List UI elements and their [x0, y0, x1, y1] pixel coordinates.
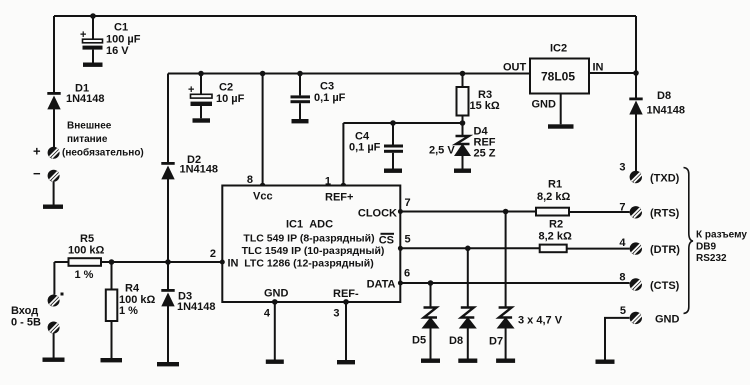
resistor R2 [539, 219, 572, 253]
svg-text:1N4148: 1N4148 [647, 105, 686, 117]
terminal 5 GND [620, 305, 680, 326]
svg-text:(TXD): (TXD) [650, 173, 680, 185]
capacitor C1 [80, 13, 141, 62]
svg-text:+: + [80, 29, 86, 41]
diode D3 [161, 262, 215, 362]
svg-text:15 kΩ: 15 kΩ [470, 100, 500, 112]
terminal input 2 [48, 322, 60, 358]
wire R2 to DTR [567, 248, 630, 250]
svg-text:R5: R5 [80, 233, 94, 245]
capacitor C4 [349, 120, 403, 168]
svg-text:IC1 ADC: IC1 ADC [286, 219, 333, 231]
terminal input 1 [48, 293, 64, 307]
svg-text:CLOCK: CLOCK [358, 208, 397, 220]
diode D8 top [629, 73, 685, 171]
svg-text:0,1 µF: 0,1 µF [349, 142, 381, 154]
svg-text:TLC 549 IP (8-разрядный): TLC 549 IP (8-разрядный) [243, 233, 374, 245]
svg-text:(RTS): (RTS) [650, 208, 680, 220]
svg-text:R1: R1 [548, 179, 562, 191]
svg-text:R2: R2 [549, 219, 563, 231]
svg-text:REF-: REF- [333, 288, 359, 300]
svg-text:3: 3 [333, 308, 339, 320]
diode D2 [161, 154, 218, 262]
svg-text:C3: C3 [320, 81, 334, 93]
svg-text:C1: C1 [114, 22, 128, 34]
svg-text:3: 3 [619, 162, 625, 174]
svg-text:D8: D8 [449, 335, 463, 347]
svg-text:6: 6 [404, 268, 410, 280]
svg-text:D8: D8 [657, 90, 671, 102]
ground D5 [421, 359, 440, 363]
svg-text:+: + [188, 84, 194, 96]
wire C4 sub-rail [343, 122, 462, 124]
ground D4 [454, 169, 471, 173]
node Vcc stem [262, 74, 264, 186]
svg-text:8: 8 [619, 272, 625, 284]
svg-text:3 x 4,7 V: 3 x 4,7 V [518, 315, 563, 327]
wire REF+ drop [342, 123, 344, 186]
svg-text:OUT: OUT [503, 62, 527, 74]
svg-text:К разъему: К разъему [696, 230, 747, 241]
svg-text:16 V: 16 V [106, 45, 129, 57]
ground IC pin4 [266, 360, 284, 364]
capacitor C3 [291, 71, 346, 119]
svg-text:8,2 kΩ: 8,2 kΩ [539, 231, 572, 243]
svg-text:питание: питание [67, 134, 108, 145]
svg-text:D7: D7 [489, 336, 503, 348]
svg-text:R4: R4 [125, 283, 140, 295]
diode D1 [47, 83, 104, 148]
wire top rail [54, 15, 636, 17]
wire CS line [400, 247, 539, 249]
resistor R4 [106, 262, 156, 358]
ground C4 [384, 169, 402, 173]
svg-text:REF+: REF+ [325, 192, 353, 204]
svg-text:TLC 1549 IP (10-разрядный): TLC 1549 IP (10-разрядный) [242, 245, 385, 257]
svg-text:RS232: RS232 [696, 253, 727, 264]
wire D5 drop [430, 283, 432, 308]
svg-text:100 kΩ: 100 kΩ [68, 245, 105, 257]
wire D6 drop [467, 248, 469, 307]
capacitor C2 [188, 71, 245, 119]
svg-text:IN: IN [228, 258, 239, 270]
svg-text:4: 4 [619, 237, 626, 249]
svg-text:8: 8 [247, 174, 253, 186]
wire R1 to RTS [569, 211, 630, 213]
svg-text:1 %: 1 % [119, 305, 138, 317]
terminal 8 CTS [619, 272, 679, 293]
svg-text:CS: CS [379, 235, 394, 247]
wire drop to D2 [167, 74, 169, 163]
wire IC pin3 REF- [345, 302, 347, 360]
wire DATA line [400, 282, 629, 284]
svg-text:(DTR): (DTR) [650, 244, 680, 256]
svg-text:25 Z: 25 Z [474, 148, 496, 160]
node R5/R4 junction [109, 259, 115, 265]
ground R4 [101, 358, 123, 362]
svg-text:2,5 V: 2,5 V [429, 145, 455, 157]
svg-text:GND: GND [655, 314, 680, 326]
svg-text:C2: C2 [219, 82, 233, 94]
svg-text:0,1 µF: 0,1 µF [314, 92, 346, 104]
ground D6 [458, 359, 477, 363]
wire second rail [168, 73, 530, 75]
svg-text:DB9: DB9 [696, 242, 716, 253]
svg-text:7: 7 [405, 197, 411, 209]
zener D6 [449, 308, 477, 359]
ground IC2 [548, 124, 574, 128]
node R3/D4 junction [460, 120, 466, 126]
svg-text:78L05: 78L05 [541, 70, 575, 84]
ground GND terminal [596, 360, 615, 364]
wire IC pin4 GND [274, 302, 276, 360]
svg-text:8,2 kΩ: 8,2 kΩ [537, 191, 570, 203]
wire right drop to IN node [635, 16, 637, 73]
svg-text:(необязательно): (необязательно) [62, 147, 144, 159]
resistor R3 [457, 71, 500, 123]
wire bend to input terminal [53, 262, 55, 295]
svg-text:Внешнее: Внешнее [67, 121, 112, 132]
svg-text:1 %: 1 % [75, 269, 94, 281]
svg-text:2: 2 [210, 248, 216, 260]
svg-text:1: 1 [325, 176, 331, 188]
ground D3 [157, 362, 179, 366]
terminal + (external power) [33, 144, 60, 159]
op IC2 78L05 [503, 43, 604, 111]
wire GND terminal [605, 318, 629, 360]
svg-text:7: 7 [619, 202, 625, 214]
svg-text:1N4148: 1N4148 [66, 93, 105, 105]
wire GND stem IC2 [560, 94, 562, 125]
brace DB9 [684, 168, 694, 314]
svg-text:1N4148: 1N4148 [180, 164, 219, 176]
ground external power [43, 205, 63, 209]
svg-text:Vcc: Vcc [253, 191, 273, 203]
svg-text:D5: D5 [412, 335, 426, 347]
svg-text:GND: GND [264, 288, 289, 300]
svg-text:1N4148: 1N4148 [177, 301, 216, 313]
svg-text:100 µF: 100 µF [106, 34, 141, 46]
wire left drop to D1 [53, 16, 55, 93]
wire D7 drop [505, 212, 507, 308]
ground input [43, 358, 65, 362]
svg-text:−: − [33, 166, 41, 181]
node D2/D3 junction [165, 259, 171, 265]
svg-text:GND: GND [532, 99, 557, 111]
terminal 3 TXD [619, 162, 679, 185]
op-amp IC1 box [222, 186, 400, 303]
svg-text:(CTS): (CTS) [650, 280, 680, 292]
label input [11, 305, 41, 329]
svg-text:IN: IN [593, 62, 604, 74]
svg-text:0 - 5В: 0 - 5В [11, 317, 41, 329]
terminal - (external power) [33, 166, 60, 205]
zener D7 [489, 308, 563, 359]
ground D7 [496, 359, 515, 363]
ground C1 [83, 63, 103, 67]
resistor R1 [536, 179, 570, 216]
svg-text:10 µF: 10 µF [216, 93, 245, 105]
zener D4 [429, 123, 496, 169]
label external power [62, 121, 144, 159]
svg-text:5: 5 [405, 234, 411, 246]
resistor R5 [68, 233, 105, 281]
svg-text:5: 5 [620, 305, 626, 317]
svg-text:IC2: IC2 [550, 43, 567, 55]
zener D5 [412, 308, 440, 359]
wire CLOCK line [400, 211, 536, 213]
svg-text:DATA: DATA [367, 279, 396, 291]
svg-text:4: 4 [264, 308, 271, 320]
ground C3 [292, 119, 309, 123]
svg-text:LTC 1286 (12-разрядный): LTC 1286 (12-разрядный) [244, 258, 373, 270]
ground C2 [193, 118, 211, 122]
svg-text:Вход: Вход [11, 305, 38, 317]
terminal 7 RTS [619, 202, 679, 220]
terminal 4 DTR [619, 237, 680, 256]
wire IN of IC2 [589, 72, 636, 74]
wire IN line [54, 261, 222, 263]
ground IC pin3 [337, 360, 355, 364]
label DB9 RS232 [696, 230, 747, 265]
svg-text:+: + [33, 144, 41, 159]
